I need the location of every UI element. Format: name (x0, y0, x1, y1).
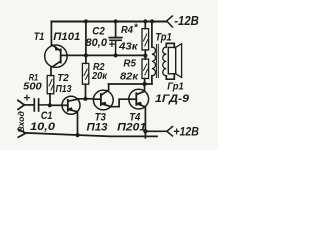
wire T3 emitter to T4 base jog (111, 99, 129, 107)
wire input node to T2 base (50, 104, 62, 106)
wire T4 emitter down to rail (144, 107, 146, 138)
node dot A at R2 line crossing (84, 53, 88, 57)
transistor T4 (129, 89, 149, 109)
svg-text:82к: 82к (120, 71, 139, 83)
transformer Tr1 core (156, 45, 158, 78)
wire secondary top to speaker (166, 43, 174, 47)
node dot R5 bottom / collectors (142, 82, 146, 86)
wire T2 emitter down to rail (77, 112, 79, 136)
plus sign C2 (110, 42, 115, 47)
wire output node (T3/T4 collectors, R5, transformer) (109, 83, 152, 85)
node dot rail-R4 (143, 19, 147, 23)
svg-text:Тр1: Тр1 (155, 32, 172, 44)
svg-text:Т1: Т1 (34, 31, 45, 43)
wire node A (T1 base to R4/R5) (67, 54, 146, 56)
svg-text:П13: П13 (87, 121, 108, 133)
wire T3 collector up to output node (108, 84, 110, 90)
svg-text:С2: С2 (92, 26, 105, 38)
wire rail down to R2 (crosses node A wire) (85, 21, 87, 63)
wire R2 bottom to T2/T3 node (85, 84, 87, 99)
transistor T1 (45, 45, 67, 67)
wire bottom +12V rail (26, 133, 157, 137)
node dot rail-transformer (150, 19, 154, 23)
svg-text:-12В: -12В (174, 14, 199, 28)
wire T2 collector to T3 base (77, 98, 93, 100)
svg-text:1ГД-9: 1ГД-9 (155, 93, 190, 105)
wire T1 emitter down to R1 (50, 67, 52, 76)
transformer Tr1 secondary winding (163, 47, 167, 76)
terminal -12V (167, 16, 173, 27)
node dot T2 emitter on rail (76, 133, 80, 137)
svg-text:20к: 20к (91, 71, 108, 82)
node dot rail-C2 (114, 19, 118, 23)
transistor T2 (62, 96, 80, 114)
svg-text:R4: R4 (121, 25, 133, 36)
transistor T3 (93, 90, 113, 110)
node dot rail-R2 line (84, 19, 88, 23)
wire C2 top from rail (115, 21, 117, 37)
resistor R5 (142, 55, 149, 84)
wire secondary bottom to speaker (166, 74, 174, 79)
wire Tr1 primary bottom to output node (151, 76, 153, 84)
svg-text:*: * (134, 23, 139, 34)
transformer Tr1 primary lead from rail (151, 21, 153, 47)
speaker Gr1 (168, 44, 181, 78)
svg-text:500: 500 (23, 82, 42, 93)
node dot input-R1-T2 base (48, 103, 52, 107)
node dot R2 bottom (83, 97, 87, 101)
wire T1 collector to rail (50, 21, 52, 45)
svg-text:80,0: 80,0 (86, 37, 108, 49)
wire top -12V rail (51, 21, 166, 23)
terminal input top (18, 100, 24, 109)
capacitor C2 (109, 38, 121, 56)
terminal input bottom (18, 129, 26, 137)
node dot T4 emitter on rail (143, 129, 147, 133)
plus sign C1 (25, 95, 30, 100)
resistor R1 (47, 76, 54, 94)
node dot R4-R5 junction (143, 54, 147, 58)
svg-text:П101: П101 (53, 31, 80, 43)
wire R1 bottom to input node (49, 94, 51, 106)
svg-text:П13: П13 (56, 83, 72, 95)
terminal +12V (146, 130, 167, 132)
resistor R4 (142, 21, 149, 55)
svg-text:П201: П201 (117, 121, 146, 133)
svg-text:43к: 43к (118, 41, 139, 52)
svg-text:Гр1: Гр1 (167, 80, 184, 92)
wire T4 collector up to output node (144, 84, 146, 91)
svg-text:R5: R5 (123, 59, 136, 70)
capacitor C1 (34, 99, 50, 111)
svg-text:+12В: +12В (173, 124, 199, 138)
wire input terminal to C1 (24, 104, 33, 106)
resistor R2 (82, 63, 88, 84)
node dot A at C2 (114, 53, 118, 57)
svg-text:10,0: 10,0 (30, 121, 56, 133)
svg-text:Вход: Вход (16, 111, 26, 133)
transformer Tr1 primary winding (152, 47, 156, 76)
